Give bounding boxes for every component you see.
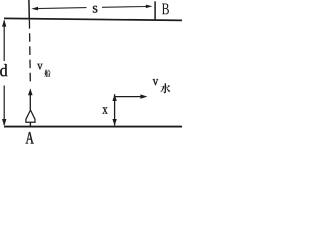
B label	[162, 4, 169, 15]
v_boat arrowhead	[28, 88, 33, 95]
s dimension right arrowhead	[146, 5, 153, 9]
d dimension upper segment	[3, 21, 5, 62]
v_boat label v	[37, 64, 42, 70]
d dimension up arrowhead	[2, 20, 6, 27]
tick bar at B	[154, 1, 156, 19]
x dimension up arrowhead	[112, 94, 116, 101]
boat symbol at A (open arrow/sail shape with base)	[26, 110, 35, 122]
boat mast stub to bank	[29, 122, 31, 126]
bottom bank line	[4, 126, 182, 128]
v_water subscript shui	[160, 83, 170, 93]
s label	[93, 6, 98, 13]
v_boat subscript chuan	[45, 70, 51, 78]
x label	[103, 107, 108, 113]
d dimension down arrowhead	[2, 119, 6, 126]
d label	[0, 64, 7, 76]
A label	[26, 132, 34, 144]
v_water label v	[153, 79, 159, 85]
d dimension lower segment	[3, 86, 5, 126]
x dimension down arrowhead	[112, 119, 116, 126]
s dimension line right segment	[102, 6, 146, 9]
v_boat velocity arrow shaft	[29, 93, 31, 110]
dashed path line from top bank down toward boat	[28, 20, 31, 82]
s dimension left arrowhead	[31, 7, 38, 11]
v_water arrowhead	[140, 94, 147, 98]
x dimension line	[114, 94, 116, 125]
vertical line through A above bank (solid)	[28, 0, 30, 20]
v_water velocity arrow shaft	[115, 96, 142, 98]
s dimension line left segment	[37, 7, 87, 10]
top bank line	[4, 18, 182, 20]
